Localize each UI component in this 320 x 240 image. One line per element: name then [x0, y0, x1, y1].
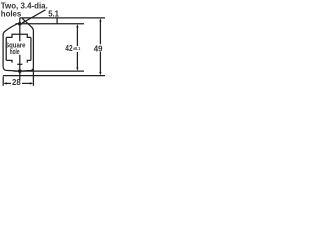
svg-text:hole: hole	[10, 47, 20, 56]
svg-text:42: 42	[65, 44, 73, 53]
svg-text:holes: holes	[1, 9, 22, 18]
svg-text:28: 28	[12, 78, 21, 87]
svg-text:5.1: 5.1	[48, 9, 59, 18]
svg-text:±0.1: ±0.1	[73, 46, 80, 52]
svg-text:49: 49	[94, 45, 103, 54]
